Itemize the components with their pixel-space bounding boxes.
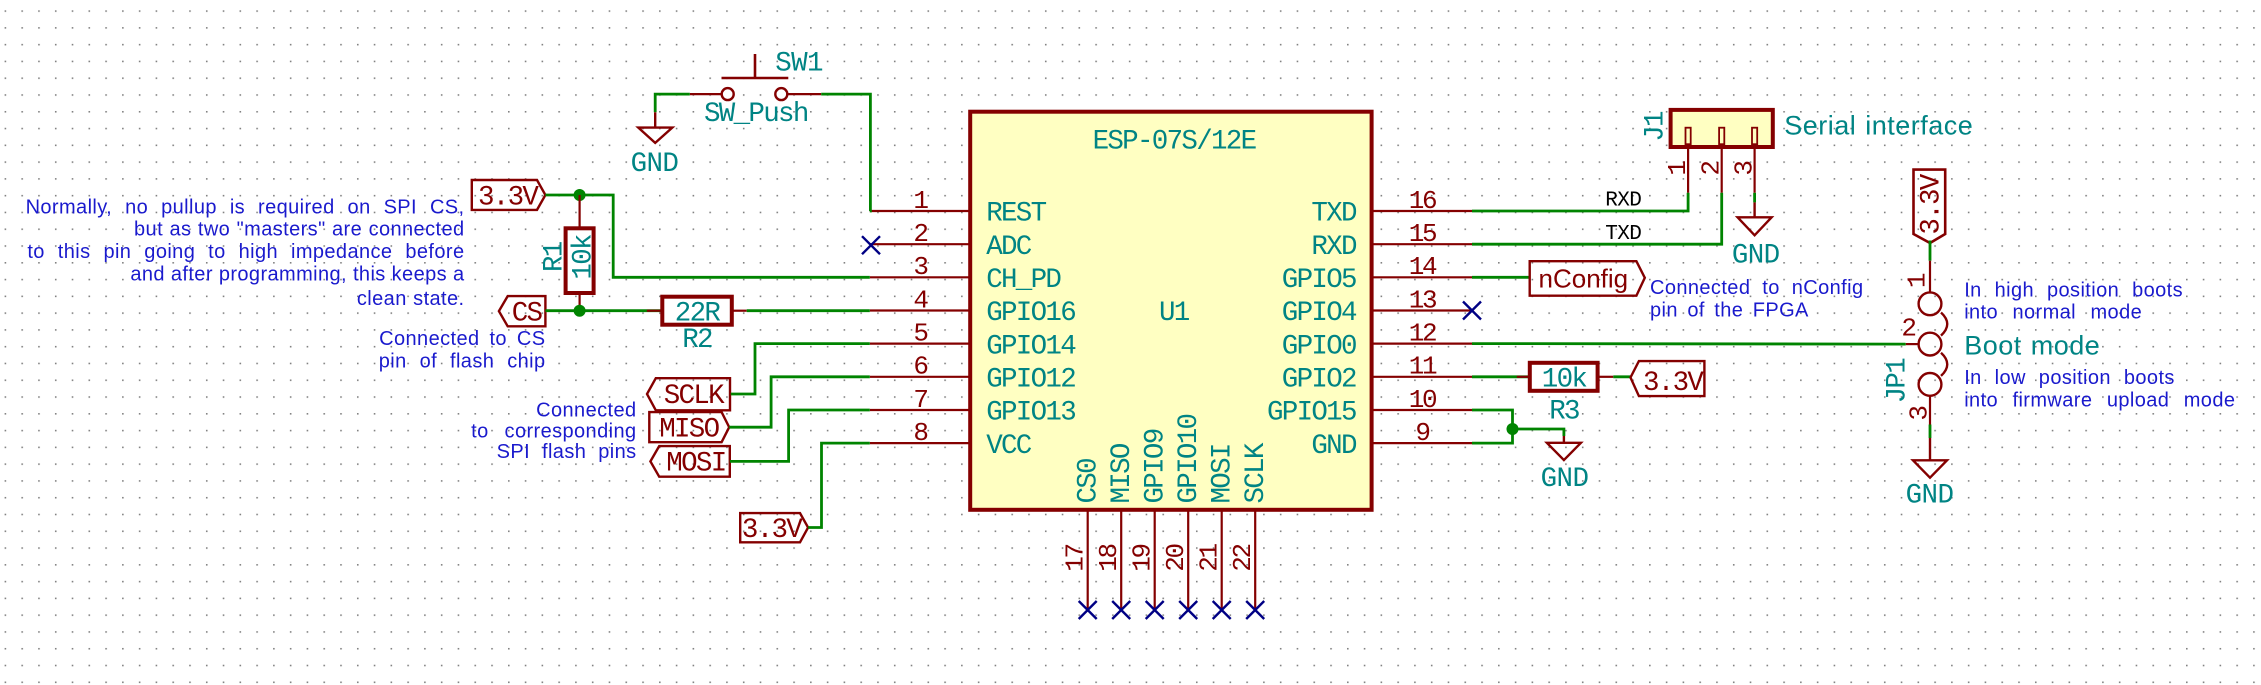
- power port 3.3V (right of R3): [1631, 361, 1705, 399]
- no-connect X on pin 13: [1463, 302, 1481, 320]
- hierarchical label SCLK: [647, 378, 730, 412]
- jumper JP1: [1883, 261, 1948, 425]
- svg-text:GPIO13: GPIO13: [986, 398, 1075, 429]
- svg-text:GPIO10: GPIO10: [1174, 414, 1205, 503]
- power port 3.3V (top left): [472, 180, 546, 214]
- svg-text:VCC: VCC: [986, 431, 1032, 462]
- wire U1 pin 12 GPIO0 to JP1 pin 2: [1472, 342, 1906, 345]
- wire junction to GND symbol: [1513, 429, 1564, 436]
- ground GND (JP1): [1906, 438, 1954, 512]
- hierarchical label MISO: [649, 412, 729, 445]
- svg-text:3.3V: 3.3V: [742, 515, 803, 546]
- U1 pin 10 GPIO15: [1267, 385, 1472, 429]
- wire SW1 left to GND drop: [655, 94, 690, 112]
- wire CS to R2: [545, 309, 662, 312]
- ground GND (top left): [631, 112, 679, 180]
- U1 pin 17 CS0: [1061, 459, 1105, 610]
- svg-text:GPIO9: GPIO9: [1141, 429, 1172, 503]
- svg-text:REST: REST: [986, 199, 1046, 230]
- svg-text:8: 8: [913, 418, 927, 448]
- svg-text:R2: R2: [682, 325, 712, 356]
- svg-text:3: 3: [913, 252, 927, 282]
- svg-text:13: 13: [1409, 285, 1436, 315]
- no-connect X on pin 22: [1246, 601, 1264, 619]
- note: In low position boots into firmware upload mode: [1964, 367, 2235, 411]
- U1 pin 21 MOSI: [1195, 444, 1239, 610]
- hierarchical label MOSI: [650, 446, 729, 480]
- wire SW1 right to U1 pin 1 REST: [821, 94, 870, 211]
- note: Connected to CS pin of flash chip: [379, 328, 546, 372]
- hierarchical label nConfig: [1530, 261, 1645, 296]
- svg-text:Serial interface: Serial interface: [1784, 111, 1973, 141]
- svg-text:GPIO14: GPIO14: [986, 331, 1076, 362]
- U1 pin 6 GPIO12: [870, 352, 1075, 396]
- svg-text:In high position boots: In high position boots: [1964, 279, 2183, 301]
- svg-text:6: 6: [913, 352, 927, 382]
- connector J1: [1641, 110, 1773, 147]
- wire 3.3V to junction: [545, 194, 579, 197]
- svg-text:GPIO0: GPIO0: [1282, 331, 1356, 362]
- svg-text:Normally, no pullup is require: Normally, no pullup is required on SPI C…: [26, 196, 465, 218]
- svg-text:CS: CS: [512, 298, 543, 329]
- wire R3 to 3.3V: [1613, 375, 1630, 378]
- svg-text:R1: R1: [540, 241, 571, 272]
- svg-text:Boot mode: Boot mode: [1964, 330, 2100, 360]
- U1 pin 19 GPIO9: [1128, 429, 1172, 610]
- svg-text:GPIO15: GPIO15: [1267, 398, 1356, 429]
- no-connect X on pin 21: [1213, 601, 1231, 619]
- junction A (3.3V / R1): [574, 189, 586, 201]
- svg-text:MISO: MISO: [1107, 443, 1138, 503]
- svg-text:MOSI: MOSI: [666, 449, 725, 480]
- no-connect X on pin 20: [1179, 601, 1197, 619]
- wire R2 to U1 pin 4 GPIO16: [747, 309, 870, 312]
- svg-text:R3: R3: [1549, 397, 1579, 428]
- svg-text:RXD: RXD: [1311, 232, 1357, 263]
- svg-text:nConfig: nConfig: [1539, 263, 1629, 293]
- svg-text:GND: GND: [1541, 464, 1589, 495]
- svg-text:12: 12: [1409, 318, 1436, 348]
- wire MISO to U1 pin 6 GPIO12: [729, 377, 870, 427]
- svg-text:In low position boots: In low position boots: [1964, 367, 2175, 389]
- svg-text:4: 4: [913, 285, 928, 315]
- J1 pin 1: [1663, 128, 1693, 193]
- svg-text:2: 2: [1696, 162, 1726, 176]
- svg-text:Connected to CS: Connected to CS: [379, 328, 545, 350]
- wire MOSI to U1 pin 7 GPIO13: [730, 410, 870, 461]
- wire J1 pin 3 to GND: [1753, 193, 1756, 203]
- svg-text:pin of the FPGA: pin of the FPGA: [1650, 299, 1809, 321]
- svg-text:1: 1: [1902, 273, 1932, 288]
- svg-text:SCLK: SCLK: [664, 381, 725, 412]
- U1 pin 8 VCC: [870, 418, 1032, 462]
- no-connect X on pin 18: [1112, 601, 1130, 619]
- ground GND (J1): [1732, 202, 1780, 271]
- svg-text:clean state.: clean state.: [357, 288, 465, 310]
- note: Connected to corresponding SPI flash pins: [471, 399, 636, 463]
- svg-text:SW_Push: SW_Push: [704, 99, 808, 130]
- svg-text:3.3V: 3.3V: [1643, 368, 1704, 399]
- svg-text:pin of flash chip: pin of flash chip: [379, 351, 546, 373]
- svg-text:MISO: MISO: [659, 414, 719, 445]
- switch SW1: [690, 49, 823, 131]
- svg-text:ADC: ADC: [986, 232, 1032, 263]
- svg-text:1: 1: [913, 186, 928, 216]
- U1 pin 11 GPIO2: [1282, 352, 1472, 396]
- wire U1 pin 11 GPIO2 to R3: [1472, 375, 1530, 378]
- svg-text:but as two "masters" are conne: but as two "masters" are connected: [134, 219, 464, 241]
- svg-text:into normal mode: into normal mode: [1964, 301, 2142, 323]
- U1 pin 5 GPIO14: [870, 318, 1076, 362]
- svg-text:GPIO5: GPIO5: [1282, 265, 1356, 296]
- svg-text:Connected: Connected: [536, 399, 636, 421]
- op-amp U1 body ESP-07S/12E: [970, 112, 1371, 510]
- wire U1 RXD to J1 pin 2 (net TXD): [1472, 193, 1722, 244]
- svg-text:10k: 10k: [1542, 365, 1588, 396]
- svg-text:GPIO12: GPIO12: [986, 365, 1075, 396]
- svg-text:Connected to nConfig: Connected to nConfig: [1650, 277, 1863, 299]
- svg-text:SPI flash pins: SPI flash pins: [497, 441, 637, 463]
- U1 pin 22 SCLK: [1228, 442, 1272, 610]
- svg-text:SCLK: SCLK: [1241, 442, 1272, 503]
- hierarchical label CS: [499, 296, 546, 329]
- svg-text:GND: GND: [1311, 431, 1357, 462]
- svg-text:GPIO4: GPIO4: [1282, 298, 1357, 329]
- no-connect X on pin 17: [1079, 601, 1097, 619]
- note: Connected to nConfig pin of the FPGA: [1650, 277, 1863, 321]
- U1 pin 7 GPIO13: [870, 385, 1075, 429]
- note: Normally, no pullup is required on SPI CS...: [26, 196, 465, 310]
- U1 pin 16 TXD: [1311, 186, 1472, 230]
- svg-text:GND: GND: [1732, 241, 1780, 272]
- svg-text:3: 3: [1904, 407, 1934, 421]
- svg-text:RXD: RXD: [1605, 190, 1641, 213]
- svg-text:2: 2: [1901, 314, 1915, 344]
- svg-text:GPIO16: GPIO16: [986, 298, 1075, 329]
- svg-text:GND: GND: [1906, 481, 1954, 512]
- svg-text:18: 18: [1094, 545, 1124, 572]
- power port 3.3V (bottom, VCC): [740, 513, 808, 546]
- junction B (CS / R1): [574, 305, 586, 317]
- J1 pin 3: [1730, 128, 1760, 193]
- svg-text:SW1: SW1: [775, 49, 823, 80]
- note: In high position boots into normal mode: [1964, 279, 2183, 323]
- svg-text:11: 11: [1409, 352, 1437, 382]
- U1 pin 14 GPIO5: [1282, 252, 1472, 296]
- svg-text:22: 22: [1228, 545, 1258, 572]
- svg-text:3.3V: 3.3V: [1917, 173, 1948, 234]
- wire junction to CH_PD corner: [580, 195, 870, 277]
- svg-text:into firmware upload mode: into firmware upload mode: [1964, 389, 2235, 411]
- U1 pin 2 ADC: [870, 219, 1032, 263]
- svg-text:CS0: CS0: [1074, 459, 1105, 504]
- svg-text:J1: J1: [1641, 111, 1672, 142]
- svg-text:15: 15: [1409, 219, 1436, 249]
- svg-text:to this pin going to high impe: to this pin going to high impedance befo…: [27, 241, 464, 263]
- no-connect X on pin 2: [862, 236, 880, 254]
- svg-text:and after programming, this ke: and after programming, this keeps a: [130, 264, 465, 286]
- svg-text:U1: U1: [1159, 298, 1190, 329]
- svg-text:1: 1: [1663, 161, 1693, 176]
- U1 pin 20 GPIO10: [1161, 414, 1205, 610]
- svg-text:CH_PD: CH_PD: [986, 265, 1061, 296]
- wire 3.3V to JP1 pin 1: [1929, 241, 1932, 261]
- svg-text:2: 2: [913, 219, 927, 249]
- svg-text:10: 10: [1409, 385, 1436, 415]
- svg-text:9: 9: [1415, 418, 1429, 448]
- U1 pin 1 REST: [870, 186, 1047, 230]
- wire U1 pin 10 GPIO15 to junction / pin 9 GND: [1472, 410, 1513, 443]
- U1 pin 15 RXD: [1311, 219, 1472, 263]
- resistor R2 22R: [647, 297, 747, 357]
- U1 pin 18 MISO: [1094, 443, 1138, 610]
- svg-text:10k: 10k: [569, 234, 600, 280]
- svg-text:GPIO2: GPIO2: [1282, 365, 1356, 396]
- wire SCLK to U1 pin 5 GPIO14: [731, 344, 870, 394]
- svg-text:3.3V: 3.3V: [478, 183, 539, 214]
- wire U1 pin 14 GPIO5 to nConfig: [1472, 276, 1530, 279]
- svg-text:3: 3: [1730, 162, 1760, 176]
- svg-text:MOSI: MOSI: [1208, 444, 1239, 503]
- svg-text:GND: GND: [631, 149, 679, 180]
- J1 pin 2: [1696, 128, 1726, 193]
- svg-text:JP1: JP1: [1883, 358, 1914, 404]
- svg-text:14: 14: [1409, 252, 1437, 282]
- U1 pin 3 CH_PD: [870, 252, 1062, 296]
- wire JP1 pin 3 to GND: [1929, 425, 1932, 439]
- svg-text:5: 5: [913, 318, 927, 348]
- svg-text:20: 20: [1161, 545, 1191, 572]
- wire U1 TXD to J1 pin 1 (net RXD): [1472, 193, 1688, 211]
- svg-text:19: 19: [1128, 545, 1158, 572]
- svg-text:TXD: TXD: [1605, 223, 1641, 246]
- svg-text:ESP-07S/12E: ESP-07S/12E: [1093, 127, 1257, 158]
- svg-text:to corresponding: to corresponding: [471, 420, 636, 442]
- resistor R3 10k: [1517, 363, 1614, 428]
- svg-text:16: 16: [1409, 186, 1436, 216]
- power port 3.3V (vertical, JP1): [1914, 170, 1948, 243]
- junction C (GPIO15/GND): [1507, 423, 1519, 435]
- ground GND (U1 pin 9): [1541, 436, 1589, 495]
- U1 pin 4 GPIO16: [870, 285, 1075, 329]
- no-connect X on pin 19: [1146, 601, 1164, 619]
- svg-text:7: 7: [913, 385, 927, 415]
- wire 3.3V to U1 pin 8 VCC: [808, 443, 870, 527]
- resistor R1 10k: [540, 195, 600, 311]
- svg-text:21: 21: [1195, 544, 1225, 572]
- svg-text:17: 17: [1061, 545, 1091, 572]
- U1 pin 12 GPIO0: [1282, 318, 1472, 362]
- svg-text:TXD: TXD: [1311, 199, 1357, 230]
- U1 pin 9 GND: [1311, 418, 1472, 462]
- U1 pin 13 GPIO4: [1282, 285, 1472, 329]
